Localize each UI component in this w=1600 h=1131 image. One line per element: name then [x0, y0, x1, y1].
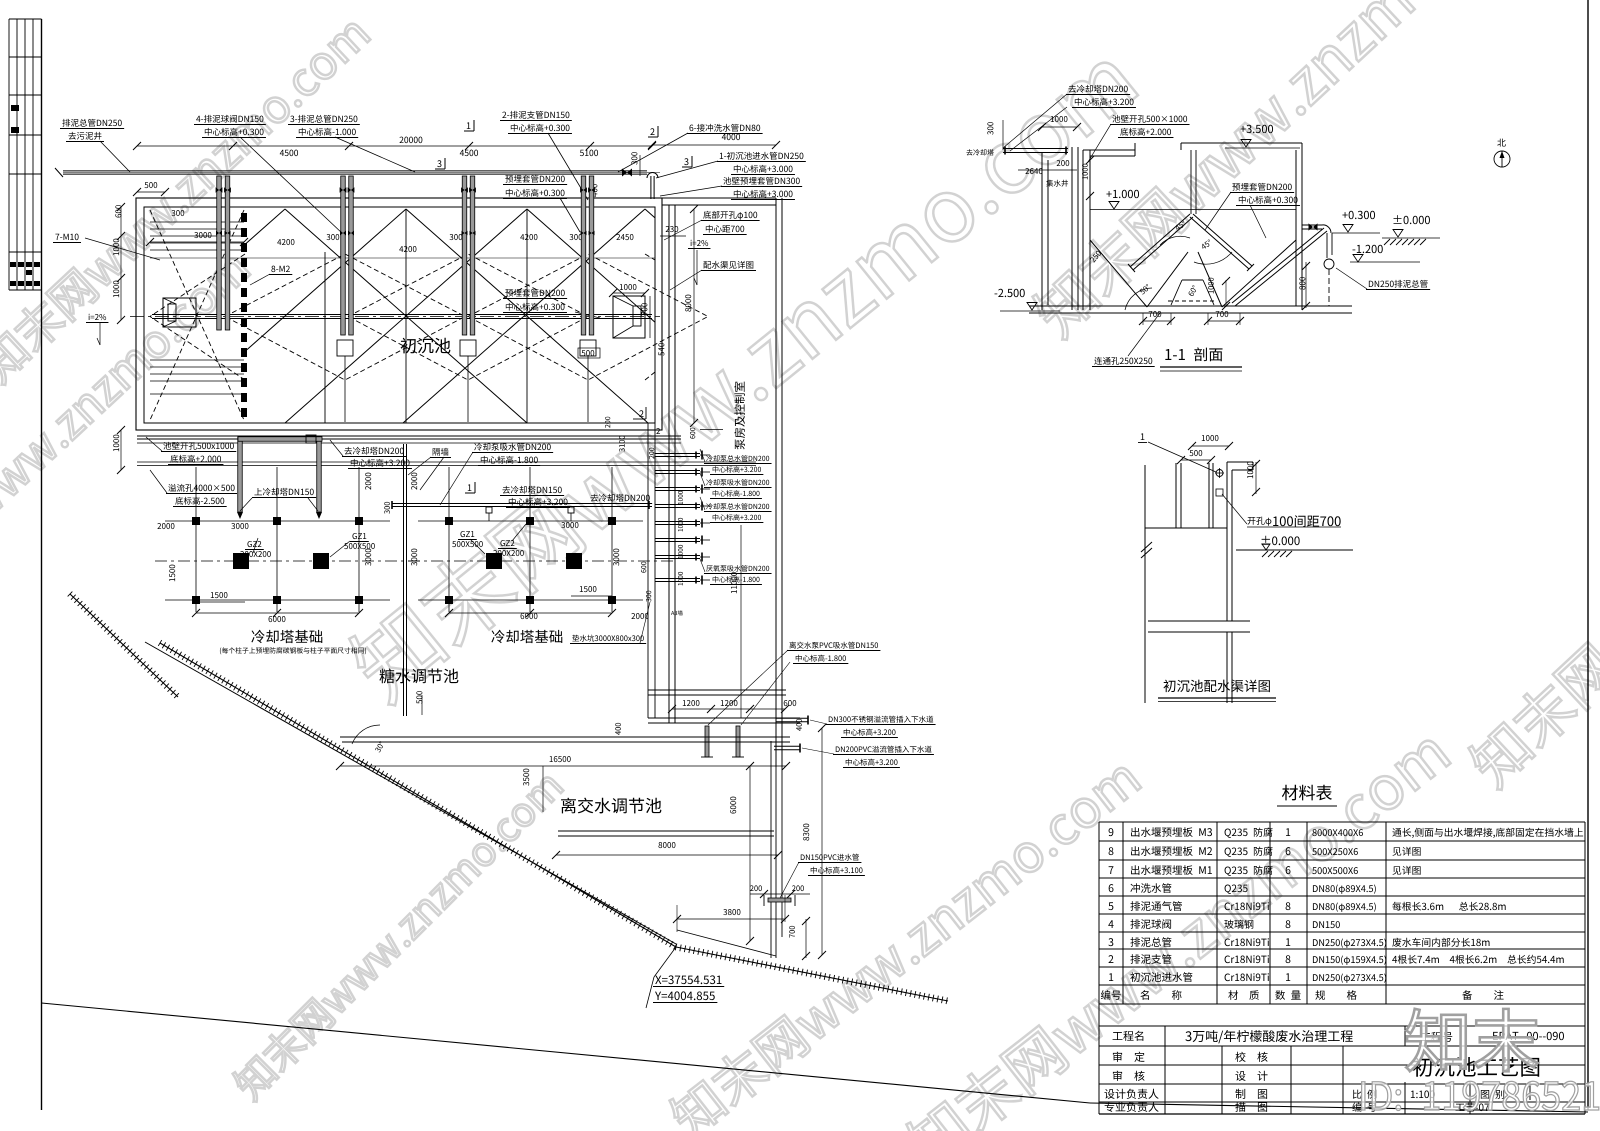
- section dim 1000 top: [1051, 116, 1068, 122]
- section hopper slopes: [1090, 240, 1147, 307]
- small column pads: [192, 517, 200, 525]
- pump house label 泵房及控制室 vertical: [734, 382, 745, 450]
- site boundary solid line: [145, 642, 676, 944]
- drawing title 初沉池工艺图: [1413, 1057, 1539, 1077]
- lattice vertical dividers: [405, 209, 407, 423]
- watermark znzmo diagonal: [341, 38, 1143, 709]
- watermark znzmo diagonal: [229, 767, 566, 1104]
- central sludge collection pipe: [152, 314, 652, 316]
- pool bottom edge: [677, 930, 776, 956]
- dashed hopper diamonds: [225, 254, 465, 380]
- detail embedded plates: [1175, 463, 1177, 528]
- section elevation -2.500: [995, 289, 1025, 297]
- large column pads GZ1: [233, 553, 249, 569]
- section: walkway pipe top left: [1003, 148, 1068, 150]
- label 池壁开孔500x1000: [163, 442, 233, 450]
- section base slab: [1029, 305, 1352, 307]
- overall dimension 20000: [400, 137, 423, 143]
- north arrow: [1497, 139, 1505, 147]
- section inclined sludge pipe branches: [1130, 214, 1190, 267]
- cooling tower foundation grid: [195, 467, 197, 612]
- foundation dims: [196, 612, 359, 614]
- dim 1000 left rotated: [113, 435, 119, 452]
- dashed sludge outlet squares: [337, 340, 353, 356]
- label 去冷却塔DN200 lower right: [590, 494, 649, 502]
- material table grid: [1099, 821, 1585, 823]
- small column pads: [445, 517, 453, 525]
- leader label 1- tank inlet pipe DN250: [720, 152, 804, 160]
- wall line below tank: [137, 461, 756, 463]
- pool label 离交水调节池: [561, 798, 661, 814]
- tank center axis line: [130, 316, 660, 318]
- pipe couplers: [216, 187, 223, 192]
- site boundary hatched line lower segment: [676, 947, 948, 1001]
- section water level +1.000: [1106, 190, 1139, 198]
- bay dimension line: [137, 145, 652, 147]
- watermark znzmo diagonal: [1027, 0, 1546, 342]
- label 去冷却塔DN150 lower: [502, 486, 561, 494]
- pump house top walls: [662, 197, 776, 199]
- bolt label 7-M10: [55, 234, 78, 240]
- section title 1-1 剖面: [1165, 347, 1222, 361]
- site boundary hatched line steep segment: [70, 594, 178, 697]
- dim 16500: [550, 756, 571, 762]
- cooling tower foundation grid: [448, 467, 450, 612]
- walls below pump house: [647, 423, 649, 718]
- dims 1200 1200 600: [672, 708, 785, 710]
- section dim 800: [1299, 277, 1305, 290]
- pump house bottom walls: [648, 689, 786, 691]
- dim 300 vertical right of inlet: [631, 152, 637, 165]
- detail dim 1000 right rotated: [1247, 462, 1253, 479]
- site coordinate callout: [655, 975, 721, 984]
- dims near stubs: [641, 562, 646, 573]
- watermark znzmo diagonal: [900, 723, 1453, 1131]
- dim 200 3100 etc right column: [605, 417, 610, 428]
- label 去冷却塔DN200 below tank: [344, 447, 403, 455]
- tank inner wall: [144, 207, 655, 423]
- angle 30 deg: [375, 741, 385, 753]
- section flag 2 bottom right of tank: [639, 410, 643, 417]
- detail ground level: [1262, 536, 1300, 545]
- embedded sleeve DN200 label upper: [505, 175, 564, 183]
- title block outer: [1098, 1004, 1100, 1114]
- title block rows: [1099, 1025, 1585, 1027]
- leader label: sludge manifold DN250 to sludge well: [62, 119, 121, 127]
- detail title 初沉池配水渠详图: [1163, 680, 1269, 692]
- slope label i=2% left: [89, 314, 107, 320]
- leader label 3- sludge manifold DN250: [290, 115, 357, 123]
- section flag 3 top-mid: [437, 160, 441, 167]
- sheet border bottom slanted edge: [42, 1003, 1091, 1103]
- bolt label 8-M2: [271, 266, 289, 272]
- pump house left wall: [668, 205, 670, 723]
- foundation dims: [449, 612, 612, 614]
- left inlet channel lines: [150, 221, 244, 223]
- detail left wall: [1144, 465, 1146, 703]
- section elevation +3.500: [1240, 125, 1273, 133]
- detail label 开孔100间距700: [1247, 517, 1271, 526]
- section outlet pipe right: [1302, 224, 1322, 226]
- pump suction pipe stubs with flanges: [655, 453, 700, 455]
- valve on manifold: [622, 169, 632, 177]
- pool top edge: [340, 736, 790, 738]
- leader label 2- sludge branch pipe DN150: [502, 111, 569, 119]
- title block texts: [1113, 1031, 1144, 1041]
- inner dimension row texts: [172, 210, 185, 216]
- dim 8000 rotated right of tank: [685, 295, 691, 312]
- wall stub text A3: [671, 610, 683, 615]
- detail wall top: [1145, 527, 1227, 529]
- tank name text 初沉池: [401, 338, 451, 354]
- watermark znzmo diagonal: [1463, 319, 1600, 792]
- pool right wall: [770, 741, 772, 958]
- section dims 700 bottom: [1149, 311, 1162, 317]
- section connecting channel trapezoid: [1182, 279, 1203, 281]
- section label 池壁开孔500x1000: [1112, 115, 1187, 123]
- left effluent box: [163, 298, 196, 327]
- material table rows text: [1109, 828, 1114, 836]
- watermark znzmo diagonal: [0, 11, 373, 386]
- label DN200PVC overflow: [836, 746, 932, 753]
- section flag 3 top-right: [684, 158, 688, 165]
- section flag 2 top: [650, 128, 654, 135]
- section 45 degree arcs: [1160, 236, 1190, 245]
- material table header: [1101, 990, 1121, 1000]
- dim 500 left: [145, 182, 158, 188]
- dim 3800: [723, 909, 740, 915]
- label 配水渠见详图: [703, 261, 753, 269]
- riser pipes to cooling tower columns gray pi shape: [238, 437, 243, 512]
- sludge riser pipe pairs: [217, 176, 222, 330]
- section tank walls: [1082, 150, 1084, 310]
- section suction pipe from right wall: [1235, 231, 1327, 306]
- watermark big 知末 logo: [1406, 1009, 1538, 1072]
- left sidebar title strip table: [8, 19, 10, 290]
- left dims rotated: [115, 205, 121, 217]
- section center wall: [1190, 150, 1192, 214]
- section flag 1 top: [467, 122, 471, 129]
- tank outer wall: [136, 198, 662, 430]
- label 底部开孔φ100: [703, 211, 757, 220]
- sheet border left: [41, 19, 43, 1110]
- long horizontal pipe below tank: [137, 435, 681, 437]
- section dim 200 2640: [1057, 160, 1070, 166]
- overflow pipe stub DN200 pvc: [774, 745, 800, 747]
- pump house right walls: [775, 198, 777, 767]
- manifold centerline: [63, 172, 660, 174]
- section flag 1 lower: [468, 484, 472, 491]
- site boundary hatched line long segment: [160, 643, 676, 947]
- section leader 去冷却塔DN200: [1068, 85, 1127, 93]
- pool lower lines: [558, 830, 774, 832]
- slope i=2% right: [691, 240, 709, 246]
- label 上冷却塔DN150: [254, 488, 313, 496]
- dim 230 right: [666, 226, 679, 232]
- partition wall long vertical pipe: [403, 444, 405, 716]
- lower horizontal pipe: [392, 503, 652, 505]
- detail channel wall: [1226, 462, 1228, 621]
- section label DN250 sludge manifold: [1369, 280, 1428, 288]
- label 溢流孔4000x500: [168, 484, 234, 492]
- label 隔墙: [433, 448, 449, 456]
- sludge manifold pipe DN250 top: [63, 170, 647, 172]
- material table title 材料表: [1282, 785, 1332, 801]
- dim 5#0: [658, 343, 664, 356]
- small suction pipes down: [705, 726, 709, 757]
- section elevation +-0.000: [1394, 215, 1430, 224]
- watermark ID number: [1362, 1081, 1600, 1110]
- leader label 4- sludge ball valve DN150: [196, 115, 263, 123]
- left zone dashed X brace: [150, 210, 244, 420]
- embedded sleeve DN200 label center: [505, 289, 564, 297]
- label DN300 overflow: [829, 716, 934, 723]
- section label 预埋套管DN200: [1232, 183, 1291, 191]
- sugar water tank label 糖水调节池: [379, 668, 458, 683]
- large column pads GZ1: [486, 553, 502, 569]
- dims 2000 rotated below tank: [365, 473, 371, 490]
- section collection well walls: [1041, 153, 1043, 310]
- dashed edge half diamonds: [150, 254, 245, 317]
- label PVC suction pipe DN150: [789, 642, 878, 649]
- sheet border right: [1587, 0, 1589, 1110]
- chase walls near pool: [775, 767, 777, 958]
- watermark znzmo diagonal: [0, 246, 253, 621]
- right effluent box: [613, 296, 645, 338]
- detail top plate: [1227, 461, 1253, 463]
- inlet pipe elbow down into tank: [650, 176, 652, 199]
- section elevation -1.200: [1353, 245, 1383, 253]
- overflow pipe stub DN300: [776, 717, 808, 719]
- detail leader 1: [1141, 433, 1145, 440]
- inlet pipe DN150PVC: [768, 898, 791, 902]
- section elevation +0.300: [1342, 211, 1375, 219]
- lattice solid diagonals of sludge hoppers: [245, 209, 285, 244]
- detail dim 1000 top: [1202, 435, 1219, 441]
- title block columns: [1164, 1026, 1166, 1114]
- detail bolt symbol: [1216, 470, 1223, 477]
- label 冷却泵吸水管DN200: [474, 443, 550, 451]
- section label 连通孔250X250: [1094, 357, 1152, 365]
- leader label wall embedded sleeve DN300: [723, 177, 799, 185]
- stub labels small: [706, 455, 769, 461]
- leader label 6- flushing water pipe DN80: [689, 124, 760, 132]
- watermark znzmo diagonal: [664, 753, 1143, 1131]
- detail base: [1148, 620, 1250, 622]
- left slotted wall: [241, 213, 247, 222]
